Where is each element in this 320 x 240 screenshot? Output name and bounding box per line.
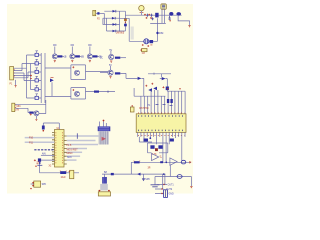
tick on buzzer wire: [111, 173, 114, 175]
polarity: [162, 86, 164, 88]
wires: [15, 100, 46, 114]
junction: [156, 32, 158, 34]
wire drops to nets: [163, 174, 165, 189]
wire: [51, 82, 53, 96]
wire: [103, 11, 120, 31]
heatsink: [131, 27, 134, 40]
wire: [15, 80, 17, 86]
pin stubs left: [52, 133, 55, 164]
capacitor C8: [142, 49, 147, 52]
polarity marks: [30, 75, 32, 79]
bottom right rail: [155, 165, 191, 187]
svg-text:5V: 5V: [109, 65, 112, 67]
wire drop SPK: [143, 174, 145, 179]
svg-text:IN: IN: [17, 109, 20, 111]
junction: [165, 161, 167, 163]
inductor L3: [177, 175, 182, 179]
label: [37, 162, 40, 164]
capacitor C20: [166, 87, 169, 91]
polarity marks top rail: [144, 14, 150, 16]
svg-text:MIC: MIC: [17, 106, 22, 108]
svg-text:3R: 3R: [148, 168, 151, 170]
gate F: [27, 81, 42, 100]
svg-text:SPK: SPK: [42, 184, 47, 186]
gate E: [31, 85, 42, 91]
wire: [120, 11, 126, 31]
capacitor C3: [146, 14, 148, 17]
speaker LS1: [34, 181, 41, 187]
gate A: [27, 51, 42, 57]
wire: [178, 16, 189, 26]
wire: [160, 79, 168, 92]
svg-text:MISO: MISO: [67, 153, 73, 155]
pin numbers bottom: [138, 134, 185, 136]
connector P1: [10, 67, 14, 80]
cap: [98, 126, 111, 131]
bridge module B1: [161, 4, 166, 9]
pin risers: [141, 90, 185, 114]
svg-text:GND: GND: [169, 194, 174, 196]
transistor Q2: [70, 45, 85, 62]
svg-text:P1.5: P1.5: [67, 145, 72, 147]
base: [98, 192, 110, 196]
buzzer feed wire: [102, 162, 165, 177]
svg-text:3C: 3C: [100, 58, 103, 60]
capacitor C9: [167, 99, 169, 103]
pin numbers top: [138, 112, 185, 114]
svg-text:10uF: 10uF: [61, 177, 67, 179]
op-amp U3A: [152, 153, 159, 160]
feedback loop: [148, 143, 168, 153]
left bus net B: [25, 141, 55, 143]
ground mid: [154, 177, 156, 185]
dashed net wire: [34, 149, 54, 151]
oscillator Y1: [144, 39, 149, 44]
svg-text:MOSI RST: MOSI RST: [67, 149, 79, 151]
diode D4: [113, 30, 116, 33]
resistor R11: [134, 161, 140, 163]
diode D2: [112, 17, 115, 20]
svg-text:5V: 5V: [109, 50, 112, 52]
bus above IC: [134, 88, 185, 96]
resistor R15: [42, 126, 45, 130]
junction: [149, 137, 151, 139]
svg-text:P10: P10: [29, 138, 34, 140]
svg-text:1B: 1B: [64, 57, 67, 59]
capacitor C13: [170, 139, 174, 142]
sheet background: [0, 0, 200, 200]
resistor R16: [60, 171, 66, 174]
capacitor C11: [130, 107, 134, 112]
fuse F1: [97, 12, 99, 14]
svg-text:OUT1: OUT1: [168, 185, 175, 187]
resistor R17: [29, 112, 33, 114]
diode D1: [113, 10, 116, 13]
pin stubs right: [64, 136, 67, 164]
upper net wire: [148, 73, 171, 77]
wire main rail: [125, 14, 181, 16]
transistor Q8: [34, 111, 39, 116]
capacitor C15: [158, 145, 162, 149]
connector P2: [93, 10, 96, 15]
bus vertical: [41, 53, 45, 103]
LED D11: [153, 87, 157, 91]
gate C: [28, 68, 41, 74]
capacitor C5: [151, 17, 153, 20]
capacitor C10: [170, 99, 172, 103]
wire: [139, 137, 152, 142]
svg-text:SPK: SPK: [145, 179, 150, 181]
capacitor C14: [150, 145, 154, 149]
wire: [120, 18, 158, 41]
pin numbers: [55, 132, 57, 164]
inductor L2: [176, 12, 181, 16]
crystal Y2: [164, 190, 168, 198]
stub net: [41, 154, 55, 156]
pullup circuit: [43, 123, 59, 130]
loop stage Q4: [45, 65, 108, 80]
resistor R10: [155, 148, 158, 151]
junction: [163, 173, 165, 175]
left bus net A: [25, 137, 55, 139]
body: [99, 131, 109, 144]
inductor L1: [169, 12, 173, 16]
three net stubs: [155, 185, 167, 194]
polarity: [142, 44, 153, 47]
capacitor C1: [124, 19, 127, 22]
transistor Q7: [100, 65, 138, 78]
svg-text:40M: 40M: [159, 33, 164, 35]
svg-text:LM7805: LM7805: [116, 32, 125, 34]
LED D10: [148, 88, 152, 92]
polarity marks: [146, 17, 153, 19]
main lower rail: [131, 161, 191, 163]
op-amp U3B: [170, 158, 177, 165]
svg-text:AIN: AIN: [42, 153, 46, 156]
bus nets: [67, 135, 99, 137]
diode D5: [155, 13, 158, 18]
schematic sheet: [7, 4, 193, 194]
bridge legs: [150, 9, 166, 23]
polarity: [145, 83, 153, 87]
pins: [100, 121, 107, 126]
pin ticks top inside: [138, 115, 185, 117]
transistor Q6: [100, 50, 126, 63]
IC body U1: [55, 130, 65, 168]
junction dots: [167, 88, 168, 89]
ground: [188, 26, 190, 28]
diode D9: [137, 173, 140, 176]
diode D7: [138, 77, 142, 80]
diode D8: [162, 77, 166, 80]
capacitor C6: [168, 16, 170, 19]
arrow: [102, 137, 107, 141]
transistor Q3: [87, 45, 102, 62]
ground: [190, 186, 192, 188]
pin ticks bottom inside: [138, 129, 185, 131]
ground: [15, 86, 17, 88]
wiring matrix: [18, 55, 31, 90]
wire: [141, 78, 143, 96]
diode D3: [113, 23, 116, 26]
ground: [190, 161, 191, 164]
svg-text:SCK: SCK: [67, 157, 72, 159]
svg-text:RST P30: RST P30: [139, 108, 149, 110]
capacitor C7: [150, 40, 154, 43]
body: [100, 184, 108, 190]
inductor L4: [181, 160, 186, 164]
output blob: [160, 161, 163, 163]
loop stage Q5: [45, 88, 115, 99]
pins bottom stubs: [138, 132, 185, 162]
gate D: [24, 76, 41, 82]
LED D6: [50, 79, 54, 83]
capacitor C19: [70, 170, 74, 178]
capacitor C2: [124, 24, 127, 27]
gate B: [31, 59, 42, 65]
connector P3: [12, 103, 15, 111]
capacitor C4: [150, 14, 152, 17]
wire: [96, 12, 105, 14]
svg-text:2B: 2B: [81, 57, 84, 59]
capacitor C12: [144, 139, 149, 142]
crystal X1: [40, 160, 59, 173]
transistor Q1: [52, 45, 67, 62]
junction tick: [76, 133, 78, 139]
fuse holder FS1: [139, 6, 144, 11]
